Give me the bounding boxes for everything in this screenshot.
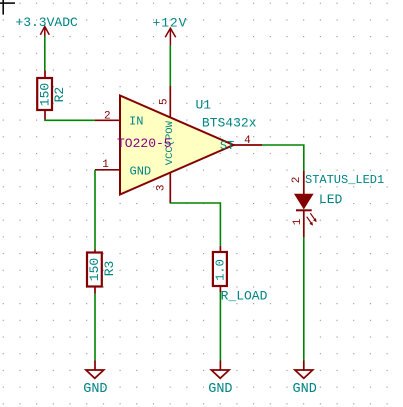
LED cathode bar bbox=[296, 209, 312, 211]
svg-text:R_LOAD: R_LOAD bbox=[221, 289, 268, 304]
svg-text:1: 1 bbox=[292, 218, 304, 225]
svg-text:GND: GND bbox=[130, 164, 152, 178]
svg-text:GND: GND bbox=[208, 382, 232, 397]
resistor R_LOAD bbox=[213, 246, 227, 292]
sheet origin marker bbox=[0, 0, 15, 15]
svg-text:1.0: 1.0 bbox=[214, 259, 228, 281]
svg-text:R3: R3 bbox=[102, 261, 117, 277]
pin 2 (IN) bbox=[95, 119, 120, 121]
LED STATUS_LED1 pin 2 segment bbox=[303, 171, 305, 194]
LED STATUS_LED1 pin 1 segment bbox=[303, 210, 305, 237]
wire R2 to U1 pin 2 bbox=[45, 119, 95, 122]
svg-text:GND: GND bbox=[83, 382, 107, 397]
svg-text:2: 2 bbox=[291, 177, 303, 184]
pin 3 bbox=[169, 172, 171, 203]
resistor R2 bbox=[37, 71, 52, 120]
svg-text:TO220-5: TO220-5 bbox=[117, 136, 172, 151]
pin 1 (GND) bbox=[95, 169, 120, 171]
LED STATUS_LED1 body (anode triangle) bbox=[295, 194, 313, 208]
svg-text:GND: GND bbox=[293, 382, 317, 397]
wire +12V to U1 pin 5 bbox=[169, 45, 171, 86]
svg-text:LED: LED bbox=[319, 192, 343, 207]
svg-text:U1: U1 bbox=[196, 98, 212, 113]
LED emission arrows bbox=[307, 213, 317, 225]
U1 body (BTS432x high-side switch) bbox=[120, 96, 234, 195]
svg-text:4: 4 bbox=[244, 135, 251, 147]
svg-text:BTS432x: BTS432x bbox=[202, 116, 257, 131]
svg-text:+12V: +12V bbox=[153, 15, 188, 30]
svg-text:3: 3 bbox=[156, 184, 168, 191]
ground symbol (left) bbox=[86, 361, 104, 379]
svg-text:STATUS_LED1: STATUS_LED1 bbox=[305, 173, 384, 187]
svg-text:+3.3VADC: +3.3VADC bbox=[15, 15, 78, 30]
svg-text:IN: IN bbox=[129, 115, 143, 129]
power symbol +3.3VADC bbox=[40, 27, 49, 37]
svg-text:2: 2 bbox=[104, 111, 111, 123]
wire U1 pin 1 to R3 bbox=[94, 170, 96, 250]
wire R_LOAD to ground (middle) bbox=[219, 292, 221, 361]
pin 4 (ST/OUT) bbox=[234, 144, 263, 146]
svg-text:R2: R2 bbox=[52, 87, 67, 103]
wire LED to ground (right) bbox=[303, 237, 305, 361]
power symbol +12V bbox=[165, 28, 176, 45]
svg-text:150: 150 bbox=[87, 258, 102, 281]
wire U1 pin 4 to LED bbox=[262, 145, 304, 171]
wire +3.3VADC to R2 bbox=[44, 36, 46, 71]
svg-text:150: 150 bbox=[37, 83, 52, 106]
svg-text:1: 1 bbox=[102, 159, 109, 171]
ground symbol (right) bbox=[295, 361, 313, 379]
wire R3 to ground (left) bbox=[94, 294, 96, 361]
resistor R3 bbox=[87, 250, 102, 294]
wire U1 pin 3 to R_LOAD bbox=[170, 203, 220, 246]
svg-text:5: 5 bbox=[159, 98, 171, 105]
svg-text:ST: ST bbox=[220, 139, 234, 153]
pin 5 (VCC) bbox=[169, 86, 171, 118]
ground symbol (middle) bbox=[211, 361, 229, 379]
